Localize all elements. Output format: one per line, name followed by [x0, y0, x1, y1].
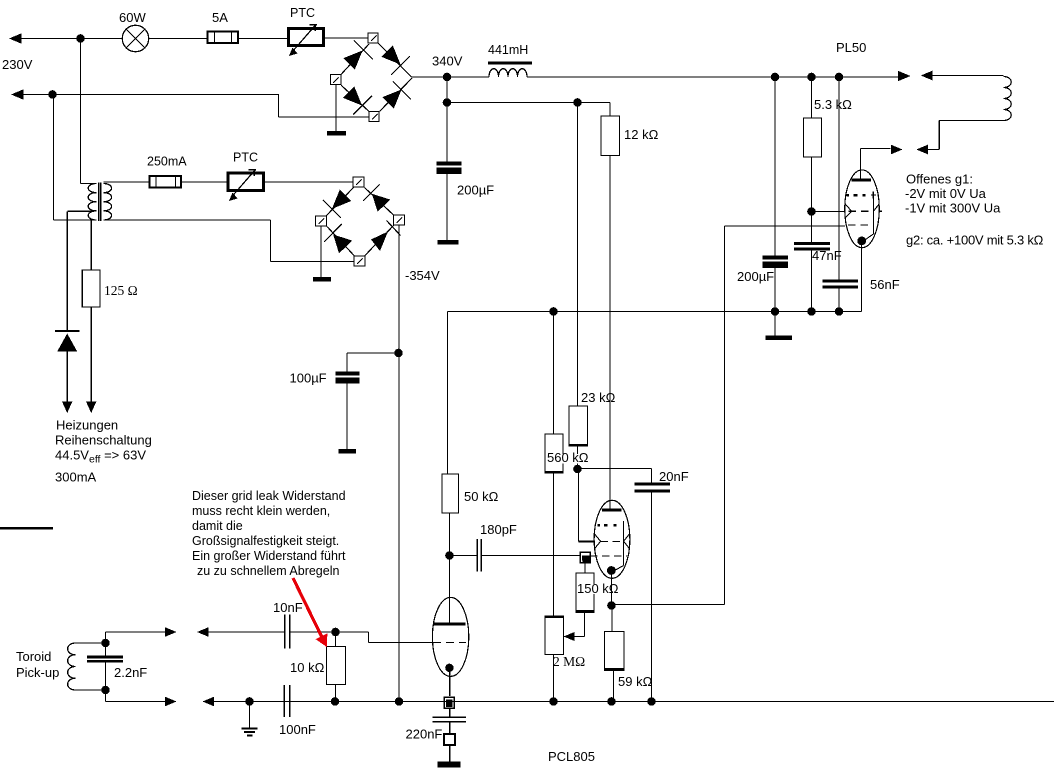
svg-text:Pick-up: Pick-up: [16, 665, 59, 680]
junction screen-47nF: [807, 307, 816, 316]
wire mains line2 left arrow: [11, 89, 24, 99]
inductor OPT winding: [1003, 77, 1011, 121]
svg-text:50 kΩ: 50 kΩ: [464, 489, 499, 504]
wire cathode node to 59k: [611, 606, 613, 632]
svg-text:Ein großer Widerstand führt: Ein großer Widerstand führt: [192, 549, 346, 563]
resistor R6 150k: [576, 573, 595, 613]
svg-text:56nF: 56nF: [870, 277, 900, 292]
svg-text:23 kΩ: 23 kΩ: [581, 390, 616, 405]
ground 220nF: [438, 762, 461, 768]
resistor R8 59k: [604, 632, 625, 671]
tube V3 grid: [433, 642, 466, 644]
diode BR2-D3 lower-left: [324, 224, 354, 256]
junction input ground: [245, 697, 254, 706]
junction B+ 200uF-b: [771, 73, 780, 82]
wire PL50 g1 feedback: [725, 225, 846, 227]
wire 56nF bottom: [838, 289, 840, 312]
wire 59k bottom: [613, 670, 615, 702]
junction screen-56nF: [835, 307, 844, 316]
svg-text:Heizungen: Heizungen: [56, 418, 118, 433]
wire divider to pentode g2: [578, 469, 580, 542]
svg-text:180pF: 180pF: [480, 522, 517, 537]
wire plug to OPT: [928, 149, 940, 151]
wire ground bus: [214, 701, 1054, 703]
wire PTC2-bridge2: [264, 181, 353, 183]
svg-text:125 Ω: 125 Ω: [104, 283, 138, 298]
junction grid-10k: [331, 628, 340, 637]
bridge rectifier BR1 top terminal: [368, 33, 378, 43]
PTC R-ptc1: [289, 24, 324, 56]
tube V1 PL50 envelope: [845, 170, 880, 248]
diode BR2-D2 upper-right: [363, 185, 394, 216]
wire line2 to bridge1 bottom: [278, 94, 280, 117]
wire fuse-PTC1: [238, 38, 288, 40]
junction branch-23k: [573, 98, 582, 107]
svg-text:60W: 60W: [119, 10, 146, 25]
wire mains line1 left arrow: [9, 33, 22, 43]
wire input top: [209, 631, 284, 633]
svg-text:PL50: PL50: [836, 40, 866, 55]
wire down to 200uF-a: [446, 77, 448, 162]
resistor R-heat 125ohm: [82, 270, 100, 307]
node pad square: [444, 734, 455, 745]
diode BR2-D4 lower-right: [365, 221, 401, 256]
wire toroid top: [76, 642, 106, 644]
transformer TR1 primary winding: [88, 184, 96, 221]
capacitor C3 200uF plates: [763, 256, 789, 260]
svg-text:PTC: PTC: [233, 151, 258, 165]
node cathode handle square: [444, 697, 454, 708]
wire 200uF-b top: [774, 77, 776, 256]
wire toroid bottom: [76, 689, 106, 691]
svg-text:10 kΩ: 10 kΩ: [290, 660, 325, 675]
node pentode g1 square: [580, 552, 590, 563]
wire BR1 left terminal to ground: [335, 85, 337, 132]
wire heater diode down: [66, 352, 68, 403]
resistor R2 23k: [569, 406, 589, 447]
wire mains line1: [20, 38, 123, 40]
wire BR2 left terminal to ground: [320, 226, 322, 277]
svg-text:150 kΩ: 150 kΩ: [577, 581, 619, 596]
tube V2 g3-cathode tie: [623, 521, 625, 528]
wire lamp-fuse: [149, 38, 208, 40]
ground BR2: [313, 277, 331, 282]
wire 560k top: [553, 312, 555, 435]
PTC R-ptc2: [228, 169, 264, 201]
svg-text:10nF: 10nF: [273, 600, 303, 615]
junction line2-heater: [48, 90, 57, 99]
tube V1 g3 dots: [847, 194, 850, 197]
svg-text:PCL805: PCL805: [548, 749, 595, 764]
junction screen-200uFb: [771, 307, 780, 316]
wire 560k to 2M: [553, 473, 555, 617]
inductor toroid winding: [68, 643, 76, 690]
wire B+ rail: [412, 76, 489, 78]
resistor R6 label: [577, 584, 610, 594]
capacitor C1 200uF plates: [437, 162, 462, 166]
svg-text:2.2nF: 2.2nF: [114, 665, 147, 680]
wire input bottom arrow: [203, 697, 215, 707]
wire pad to ground: [449, 745, 451, 762]
tube V2 g3 dots: [598, 524, 601, 527]
wire 125ohm down: [90, 307, 92, 402]
wire 10k top: [335, 632, 337, 647]
wire screen bus ground stub: [774, 312, 776, 336]
ground BR1: [327, 131, 346, 136]
svg-text:muss recht klein werden,: muss recht klein werden,: [192, 504, 330, 518]
diode BR1-D2 upper-right: [379, 44, 413, 78]
svg-text:Großsignalfestigkeit steigt.: Großsignalfestigkeit steigt.: [192, 534, 339, 548]
wire screen bus: [448, 311, 862, 313]
tube V3 cathode lead: [449, 672, 451, 696]
wire 56nF top: [838, 77, 840, 280]
wire 20nF to ground bus: [651, 493, 653, 702]
svg-text:560 kΩ: 560 kΩ: [547, 450, 589, 465]
wire heater arrow right: [86, 402, 96, 414]
wire input top arrow: [197, 627, 209, 637]
wire OPT plug arrow left: [921, 71, 933, 81]
wire B+ arrow to PL50 socket: [898, 71, 911, 81]
svg-text:Offenes g1:: Offenes g1:: [906, 172, 973, 187]
bridge rectifier BR1 bottom terminal: [369, 112, 379, 122]
wire branch to 12k: [447, 102, 610, 104]
tube V3 cathode: [445, 664, 453, 672]
svg-text:5.3 kΩ: 5.3 kΩ: [814, 97, 852, 112]
wire cathode to 220nF: [449, 708, 451, 717]
capacitor C4 47nF label: [812, 251, 841, 261]
diode BR1-D1 upper-left: [341, 41, 373, 75]
tube V1 g1 grid: [848, 224, 874, 226]
junction B+ / reservoir cap: [443, 73, 452, 82]
wire divider to 20nF: [578, 468, 652, 470]
capacitor C4 47nF plates: [794, 242, 830, 245]
svg-text:200µF: 200µF: [457, 183, 494, 198]
wire primary bottom to 125ohm: [90, 220, 92, 270]
svg-text:-1V mit 300V Ua: -1V mit 300V Ua: [905, 201, 1001, 216]
svg-text:Dieser grid leak Widerstand: Dieser grid leak Widerstand: [192, 489, 346, 503]
junction triode anode node: [445, 551, 454, 560]
wire 2M bottom: [553, 655, 555, 702]
resistor R1 12k: [601, 116, 620, 156]
svg-text:250mA: 250mA: [147, 155, 187, 169]
wire 10k bottom: [335, 685, 337, 702]
transformer TR1 secondary winding: [103, 184, 111, 221]
svg-text:100µF: 100µF: [290, 371, 327, 386]
wire secondary bottom to bridge2: [103, 219, 270, 221]
junction bus-354V rail: [395, 697, 404, 706]
wire toroid out bottom: [105, 690, 107, 702]
junction B+ branch: [443, 98, 452, 107]
wire g2 node to PL50: [812, 211, 846, 213]
junction toroid top: [101, 639, 110, 648]
svg-text:-354V: -354V: [405, 268, 440, 283]
wire 220nF to pad: [449, 722, 451, 734]
junction bus-2M: [549, 697, 558, 706]
svg-text:100nF: 100nF: [279, 722, 316, 737]
tube V2 cathode lead: [611, 574, 613, 603]
lamp 60W: [122, 25, 148, 51]
junction cathode-59k: [607, 601, 616, 610]
wire rail to 100uF: [347, 352, 399, 354]
bridge rectifier BR1 left terminal: [331, 75, 342, 85]
annotation red arrow: [293, 578, 327, 647]
svg-text:5A: 5A: [212, 10, 228, 25]
junction toroid bottom: [101, 686, 110, 695]
wire line2 down to primary bottom: [53, 95, 55, 221]
diode heater D5: [55, 331, 80, 352]
stray line left margin: [0, 527, 53, 530]
svg-text:Reihenschaltung: Reihenschaltung: [55, 433, 152, 448]
svg-text:220nF: 220nF: [406, 727, 443, 742]
resistor R7 2M: [545, 616, 565, 655]
diode BR1-D3 lower-left: [341, 85, 372, 115]
wire 5.3k bottom: [811, 157, 813, 212]
svg-text:damit die: damit die: [192, 519, 243, 533]
fuse F1 5A: [208, 32, 239, 44]
ground 200uF-a: [438, 240, 459, 245]
capacitor C7 2.2nF plates: [87, 656, 123, 659]
capacitor C8 10nF plates: [284, 615, 286, 649]
tube V3 anode lead: [449, 556, 451, 623]
bridge rectifier BR2 left terminal: [316, 216, 327, 226]
svg-text:-2V mit 0V Ua: -2V mit 0V Ua: [905, 186, 987, 201]
svg-text:47nF: 47nF: [812, 248, 842, 263]
svg-text:59 kΩ: 59 kΩ: [618, 674, 653, 689]
tube V1 g2 grid: [849, 210, 875, 212]
wire grid node to triode: [336, 631, 369, 633]
wire 2.2nF stubs: [105, 643, 107, 656]
tube V3 triode envelope: [432, 597, 468, 676]
wire 150k to 2M wiper: [584, 612, 586, 637]
svg-text:g2: ca. +100V mit 5.3 kΩ: g2: ca. +100V mit 5.3 kΩ: [906, 233, 1044, 248]
wire 47nF bottom: [811, 251, 813, 312]
capacitor C2 20nF plates: [635, 483, 671, 486]
wire line1 down to transformer primary: [80, 39, 82, 184]
wire 10nF to grid node: [291, 631, 336, 633]
tube V3 anode: [433, 623, 466, 626]
tube V2 anode: [602, 509, 622, 512]
wire mains line2: [22, 94, 279, 96]
inductor L1 441mH: [488, 62, 532, 78]
svg-text:441mH: 441mH: [488, 43, 528, 57]
wire toroid out top: [105, 632, 107, 643]
tube V1 anode: [852, 179, 872, 182]
bridge rectifier BR2 bottom terminal: [354, 256, 365, 266]
wire 2M wiper arrow: [564, 632, 575, 641]
wire g2 node to 47nF: [811, 212, 813, 243]
capacitor C9 100nF plates: [283, 685, 285, 717]
svg-text:200µF: 200µF: [737, 269, 774, 284]
resistor R3 label: [547, 454, 580, 464]
junction g2 node: [807, 207, 816, 216]
capacitor C10 220nF plates: [433, 716, 467, 718]
svg-text:230V: 230V: [2, 57, 33, 72]
junction line1-transformer: [76, 34, 85, 43]
wire 5.3k top: [811, 77, 813, 118]
tube V2 g1 grid: [590, 555, 627, 557]
resistor R9 10k: [327, 647, 346, 685]
tube V2 cathode: [607, 566, 616, 575]
wire input ground stub: [249, 702, 251, 728]
wire socket arrow right: [891, 145, 903, 155]
junction bus-59k: [607, 697, 616, 706]
tube V1 cathode lead: [861, 244, 863, 312]
svg-text:20nF: 20nF: [659, 469, 689, 484]
wire primary tap to heater diode: [67, 210, 92, 212]
wire secondary to fuse2: [103, 181, 149, 183]
tube V2 g2 grid: [601, 540, 623, 542]
svg-text:PTC: PTC: [290, 6, 315, 20]
ground input: [242, 727, 258, 729]
wire OPT top to plug: [932, 75, 1004, 77]
wire 200uF-a down: [446, 174, 448, 240]
junction B+ 56nF: [835, 73, 844, 82]
diode BR2-D1 upper-left: [323, 188, 354, 219]
node -354V rail: [398, 225, 400, 702]
diode BR1-D4 lower-right: [380, 78, 413, 112]
transformer TR1 core: [98, 183, 100, 222]
wire heater arrow left: [62, 402, 72, 414]
svg-text:300mA: 300mA: [55, 470, 97, 485]
svg-text:Toroid: Toroid: [16, 649, 51, 664]
bridge rectifier BR2 top terminal: [353, 177, 364, 187]
wire fuse2-PTC2: [181, 181, 228, 183]
junction 23k-560k divider: [573, 465, 582, 474]
svg-text:44.5Veff => 63V: 44.5Veff => 63V: [55, 448, 146, 466]
wire PTC1-bridge1: [325, 37, 368, 39]
wire 100uF bottom: [346, 384, 348, 450]
wire toroid bottom arrow: [165, 697, 177, 707]
tube V2 pentode envelope: [594, 500, 630, 578]
resistor R3 560k: [545, 434, 564, 474]
wire 12k to pentode anode: [609, 156, 611, 509]
wire PL50 anode to socket: [861, 148, 891, 150]
wire 50k bottom: [449, 513, 451, 556]
wire 200uF-b bottom: [774, 268, 776, 312]
ground screen bus: [766, 336, 793, 341]
wire 23k top: [577, 103, 579, 407]
capacitor C6 180pF plates: [476, 539, 478, 572]
tube V1 cathode: [857, 237, 866, 246]
junction B+ 5.3k: [807, 73, 816, 82]
junction bus-10k: [331, 697, 340, 706]
wire 23k bottom: [577, 446, 579, 467]
bridge rectifier BR2 right terminal: [394, 215, 405, 225]
svg-text:340V: 340V: [432, 54, 463, 69]
resistor R5 50k: [442, 474, 459, 513]
resistor R4 5.3k: [804, 118, 822, 157]
capacitor C11 100uF plates: [336, 372, 360, 376]
svg-text:zu zu schnellem Abregeln: zu zu schnellem Abregeln: [197, 564, 339, 578]
tube V1 g3-cathode tie: [872, 199, 874, 235]
tube V1 anode lead: [860, 149, 862, 179]
ground 100uF: [339, 449, 357, 454]
svg-text:2 MΩ: 2 MΩ: [553, 654, 585, 669]
junction screen-560k: [549, 307, 558, 316]
wire 180pF to pentode g1: [482, 555, 581, 557]
junction rail-100uF: [394, 349, 403, 358]
fuse F2 250mA: [150, 176, 182, 188]
svg-text:12 kΩ: 12 kΩ: [624, 127, 659, 142]
wire g1 square to 150k: [584, 563, 586, 574]
capacitor C5 56nF plates: [823, 280, 859, 283]
wire plug arrow left: [916, 145, 928, 155]
wire screen bus left drop: [447, 312, 449, 475]
wire anode node to 180pF: [450, 555, 478, 557]
junction bus-20nF: [647, 697, 656, 706]
wire toroid top arrow: [165, 627, 177, 637]
